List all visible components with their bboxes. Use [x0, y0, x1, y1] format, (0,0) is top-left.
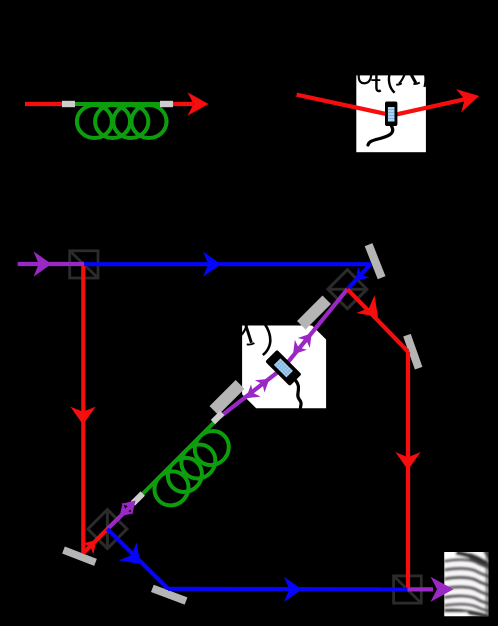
fiber connector (arm upper)	[211, 411, 225, 425]
mirror bottom (blue arm)	[151, 585, 187, 605]
output purple arrow	[431, 577, 454, 602]
fiber connector (a) left	[62, 101, 75, 107]
white inset box (chamfered) of interferometer arm	[242, 326, 326, 409]
blue bottom arrow	[284, 577, 302, 602]
modulator (b)	[368, 102, 397, 146]
white inset box of panel (b)	[356, 75, 426, 152]
mirror bottom-left (red arm)	[62, 547, 97, 566]
arrow (a)	[188, 92, 209, 116]
collimator bar upper (at box TR chamfer)	[297, 296, 331, 330]
input beam (purple)	[18, 262, 84, 266]
beamsplitter BS4	[394, 576, 422, 603]
mirror top-right (blue arm)	[365, 243, 386, 279]
blue BS3-mirror arrow	[119, 542, 150, 573]
beam (b)	[297, 95, 465, 116]
BS2-to-mirror beam (red)	[347, 289, 408, 351]
bottom beam (blue)	[168, 587, 408, 592]
fiber connector (a) right	[160, 101, 173, 107]
fiber connector (arm lower)	[131, 491, 145, 505]
right vertical beam (red)	[406, 352, 410, 590]
top beam (blue)	[84, 262, 371, 266]
red lower-left diag arrow	[82, 535, 102, 555]
purple double arrows P1	[121, 495, 141, 515]
beamsplitter BS1	[70, 251, 98, 278]
diagonal arm beam (purple)	[107, 496, 141, 530]
fiber coil (a)	[72, 104, 167, 138]
mirror-to-BS3 beam (red)	[83, 529, 107, 553]
label delta-t(lambda) of panel (b)	[359, 72, 426, 93]
beamsplitter BS2 (diamond)	[328, 270, 367, 309]
fringe image	[443, 550, 490, 617]
red right vertical arrow	[395, 452, 420, 470]
output beam (purple)	[408, 587, 434, 591]
beam (a) left	[25, 102, 67, 106]
input purple arrow	[34, 251, 52, 276]
beamsplitter BS3 (diamond)	[88, 510, 127, 549]
red BS2-mirror arrow	[356, 295, 387, 326]
purple double arrows P3	[298, 328, 318, 348]
collimator bar lower (at box BL chamfer)	[209, 380, 244, 415]
top blue arrow	[203, 252, 221, 277]
modulator (arm)	[265, 350, 301, 386]
mirror right (red arm)	[403, 334, 422, 370]
beam (a) right	[168, 102, 193, 106]
left vertical beam (red)	[81, 266, 85, 553]
wire (arm modulator)	[294, 379, 301, 408]
fiber coil (diagonal arm)	[136, 417, 243, 524]
BS3-to-mirror beam (blue)	[107, 529, 168, 589]
purple double arrows P2	[255, 373, 274, 393]
blue diag arrow	[350, 267, 370, 287]
red left arrow	[70, 407, 95, 425]
label lambda) of arm inset	[241, 324, 270, 356]
blue mirror-to-BS2 beam	[347, 264, 370, 289]
wire (b)	[368, 126, 393, 145]
